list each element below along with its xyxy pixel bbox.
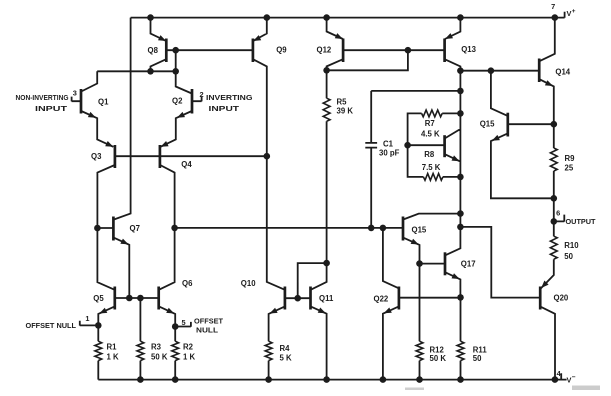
svg-text:1: 1 <box>85 314 89 323</box>
svg-text:R10: R10 <box>564 241 579 250</box>
svg-text:OFFSET NULL: OFFSET NULL <box>26 321 77 330</box>
svg-text:1 K: 1 K <box>107 353 120 362</box>
svg-text:Q8: Q8 <box>148 46 159 55</box>
svg-text:Q20: Q20 <box>554 293 569 302</box>
svg-text:Q1: Q1 <box>98 97 109 106</box>
svg-text:R8: R8 <box>424 150 435 159</box>
svg-text:50 K: 50 K <box>430 354 447 363</box>
svg-text:R7: R7 <box>425 119 435 128</box>
svg-text:3: 3 <box>73 88 77 97</box>
svg-text:4.5 K: 4.5 K <box>421 130 440 139</box>
svg-text:+: + <box>572 8 576 15</box>
svg-text:V: V <box>567 9 572 18</box>
svg-text:Q5: Q5 <box>93 294 104 303</box>
svg-text:Q3: Q3 <box>91 152 102 161</box>
svg-text:Q17: Q17 <box>461 259 476 268</box>
svg-text:5 K: 5 K <box>280 353 293 362</box>
svg-text:50: 50 <box>473 354 482 363</box>
svg-text:Q15: Q15 <box>480 120 495 129</box>
svg-text:R4: R4 <box>280 344 291 353</box>
svg-text:Q13: Q13 <box>461 45 476 54</box>
svg-text:OUTPUT: OUTPUT <box>566 217 597 226</box>
svg-text:6: 6 <box>556 209 560 218</box>
svg-text:R5: R5 <box>337 97 348 106</box>
svg-text:INPUT: INPUT <box>35 104 68 113</box>
svg-text:R1: R1 <box>107 342 118 351</box>
svg-text:V: V <box>567 376 572 385</box>
svg-text:Q6: Q6 <box>182 279 193 288</box>
svg-text:Q12: Q12 <box>317 46 332 55</box>
svg-text:C1: C1 <box>383 140 394 149</box>
svg-text:Q14: Q14 <box>555 68 570 77</box>
svg-text:R3: R3 <box>151 342 162 351</box>
svg-text:Q11: Q11 <box>319 294 334 303</box>
svg-text:R2: R2 <box>183 342 194 351</box>
svg-text:Q10: Q10 <box>241 279 256 288</box>
svg-text:Q4: Q4 <box>181 160 192 169</box>
svg-text:25: 25 <box>565 164 574 173</box>
svg-text:R9: R9 <box>565 154 576 163</box>
svg-text:30 pF: 30 pF <box>379 149 400 158</box>
svg-text:50: 50 <box>564 252 573 261</box>
svg-text:Q7: Q7 <box>130 224 140 233</box>
svg-text:NON-INVERTING: NON-INVERTING <box>16 93 69 102</box>
svg-text:5: 5 <box>181 318 185 327</box>
svg-text:OFFSET: OFFSET <box>194 316 224 325</box>
svg-text:Q9: Q9 <box>276 46 287 55</box>
svg-text:7.5 K: 7.5 K <box>422 163 441 172</box>
svg-text:50 K: 50 K <box>151 353 168 362</box>
svg-text:Q15: Q15 <box>412 226 427 235</box>
svg-text:INVERTING: INVERTING <box>206 93 253 102</box>
svg-text:Q22: Q22 <box>374 294 389 303</box>
svg-text:39 K: 39 K <box>337 106 354 115</box>
svg-text:1 K: 1 K <box>183 353 196 362</box>
svg-text:2: 2 <box>199 90 203 99</box>
svg-text:7: 7 <box>551 2 555 11</box>
svg-text:NULL: NULL <box>196 326 219 335</box>
svg-text:Q2: Q2 <box>172 97 183 106</box>
svg-text:INPUT: INPUT <box>209 104 240 113</box>
svg-text:−: − <box>572 374 576 381</box>
